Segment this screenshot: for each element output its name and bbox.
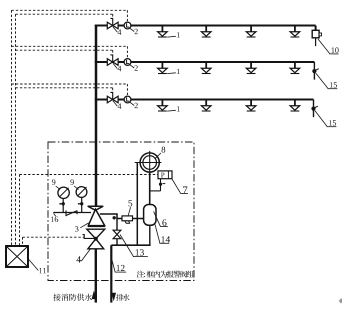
water motor alarm 8 outer (140, 153, 159, 172)
wire branch 3 flow-indicator (12, 83, 128, 85)
text 接消防供水 (53, 294, 92, 301)
signal valve 4 branch 2 stem (110, 55, 112, 62)
sprinkler head branch 2-1 (161, 63, 163, 69)
wire pressure-switch horizontal (20, 174, 159, 176)
label 1 branch 1 leader (167, 35, 176, 38)
control panel 11 box (6, 246, 28, 267)
gauge header pipe (53, 212, 91, 214)
label 7 leader (172, 179, 181, 193)
water motor alarm 8 inner (143, 156, 157, 170)
sprinkler head branch 3-4 (294, 100, 296, 106)
sprinkler head branch 3-3 (250, 100, 252, 106)
wire branch 3 flow-indicator drop (126, 84, 128, 96)
label 3 (75, 226, 78, 231)
scan speck (bottom right) (339, 298, 342, 303)
wire branch 2 signal valve (16, 49, 113, 51)
control panel 11 cross (6, 246, 28, 267)
label 2 branch 1 leader (130, 28, 134, 31)
label 4 branch 1 leader (113, 27, 117, 32)
wire branch 1 flow-indicator drop (126, 10, 128, 22)
label 16 leader (54, 213, 56, 216)
label 1 branch 2 (177, 69, 180, 74)
end test valve 15 (2) tick (315, 69, 319, 71)
main signal valve 4 dot (94, 237, 98, 241)
end test device 10 stem (315, 38, 317, 46)
restrictor 5 tail (125, 221, 130, 224)
supply pipe below valves (95, 249, 97, 303)
pressure switch dot (159, 183, 162, 186)
sprinkler head branch 2-3 (250, 63, 252, 69)
label 2 branch 1 (135, 29, 138, 34)
wire branch 2 flow-indicator drop (126, 46, 128, 58)
label 15 (3) leader (315, 111, 327, 127)
note text 注:框内为报警阀组 (137, 271, 194, 278)
label 4 (main) leader (78, 249, 91, 261)
drain pipe 12 (110, 245, 112, 302)
main signal valve 4 lower (88, 239, 104, 249)
test valve 13 (113, 230, 121, 234)
alarm valve group boundary box (48, 142, 194, 281)
label 1 branch 1 (177, 32, 180, 37)
label 9 leader (56, 186, 60, 190)
wire branch 1 signal valve (16, 13, 113, 15)
flow indicator 2 branch 2 paddle (127, 60, 130, 64)
label 9 (52, 180, 55, 185)
label 10 (332, 47, 339, 52)
wire pressure-switch vertical (19, 175, 21, 247)
wire branch 1 signal valve drop (112, 14, 114, 18)
check valve 16 (65, 210, 67, 216)
drain header (111, 244, 150, 246)
pressure switch 7 divider (167, 171, 169, 179)
label 11 leader (28, 258, 39, 271)
label 1 branch 2 leader (167, 72, 176, 75)
main signal valve 4 upper (87, 229, 105, 239)
branch 1 pipe (95, 25, 316, 27)
delay chamber riser (149, 172, 151, 205)
end test valve 15 (3) drop (313, 100, 315, 118)
end test valve 15 (3) dot (311, 107, 315, 111)
signal valve 4 branch 3 stem (110, 92, 112, 99)
wire main signal valve horizontal (23, 236, 85, 238)
label 13 leader (120, 235, 133, 257)
sprinkler head branch 1-3 (250, 26, 252, 32)
label 6 (162, 219, 166, 225)
gauge cock right (80, 202, 83, 205)
sprinkler head branch 1-2 (205, 26, 207, 32)
wire trunk to control panel (inner) (15, 14, 17, 246)
label 5 (129, 200, 133, 206)
label 14 leader (155, 225, 160, 244)
sprinkler head branch 1-4 (294, 26, 296, 32)
end test device 10 tab (319, 33, 321, 36)
sprinkler head branch 3-1 (161, 100, 163, 106)
test drain drop pipe (116, 219, 118, 246)
end test valve 15 (3) tick (314, 106, 318, 108)
sprinkler head branch 2-4 (294, 63, 296, 69)
sprinkler head branch 3-2 (205, 100, 207, 106)
label 5 leader (128, 207, 131, 216)
label 9 (70, 180, 73, 185)
wire trunk to control panel (outer) (11, 10, 13, 246)
text 排水 (116, 294, 130, 301)
bell crosshair horizontal (135, 162, 162, 164)
wire branch 2 signal valve drop (112, 50, 114, 55)
wire main signal valve drop (22, 237, 24, 246)
label 15 (2) (330, 82, 337, 87)
pressure switch 7 box (158, 171, 172, 179)
gauge stem right (81, 197, 83, 212)
end test device 10 body (312, 30, 319, 38)
label 4 branch 1 (118, 29, 122, 34)
restrictor 5 body (122, 216, 133, 221)
branch 2 pipe (95, 61, 315, 63)
main riser pipe (upper) (95, 25, 98, 207)
wire branch 3 signal valve (16, 87, 113, 89)
delay chamber 6 (144, 205, 156, 226)
end test valve 15 (2) drop (313, 62, 315, 80)
label 12 leader (112, 259, 115, 272)
label 4 (main) (76, 256, 80, 262)
delay chamber drain stem (149, 225, 151, 245)
bell crosshair vertical (149, 151, 151, 174)
pressure switch 7 letter P (161, 173, 164, 178)
pressure gauge 9 needle (60, 188, 69, 197)
flow indicator 2 branch 2 (124, 59, 131, 66)
label 2 branch 2 leader (130, 65, 134, 68)
pressure gauge 9 needle (78, 187, 87, 196)
label 10 leader (318, 39, 330, 54)
alarm outlet junction dot (113, 216, 116, 219)
label 8 leader (155, 153, 161, 158)
signal valve 4 branch 1 stem (110, 18, 112, 25)
pressure gauge 9 (58, 187, 69, 198)
alarm valve 3 body (88, 209, 104, 225)
main signal valve 4 bracket (83, 235, 96, 239)
signal valve 4 branch 1 (107, 22, 112, 29)
label 4 branch 2 leader (113, 63, 117, 68)
label 1 branch 3 (177, 106, 180, 111)
sprinkler head branch 2-2 (205, 63, 207, 69)
label 15 (3) (329, 120, 336, 125)
label 12 (117, 265, 125, 271)
pressure switch drop (160, 179, 162, 191)
label 1 branch 3 leader (167, 109, 176, 112)
signal valve 4 branch 3 (107, 96, 112, 103)
label 11 (39, 268, 46, 273)
wire branch 1 flow-indicator (12, 9, 128, 11)
flow indicator 2 branch 3 (124, 96, 131, 103)
label 7 (183, 186, 187, 193)
label 9 leader (74, 186, 78, 190)
wire branch 3 signal valve drop (112, 88, 114, 93)
label 4 branch 3 leader (113, 101, 117, 106)
drain flow arrow (112, 293, 116, 300)
gauge cock left (62, 202, 65, 205)
label 14 (161, 236, 170, 242)
label 2 branch 3 leader (130, 102, 134, 105)
flow indicator 2 branch 1 paddle (127, 23, 130, 27)
gauge stem left (62, 199, 64, 213)
alarm outlet pipe (100, 214, 144, 219)
label 4 branch 2 (118, 66, 122, 71)
end test device 10 drop (315, 26, 317, 31)
alarm valve 3 upper cone (88, 206, 104, 210)
signal valve 4 branch 2 (107, 59, 112, 66)
label 2 branch 3 (135, 103, 138, 108)
pressure switch tap pipe (150, 190, 161, 192)
bell drain pipe (136, 163, 138, 246)
label 3 leader (80, 223, 88, 228)
label 15 (2) leader (316, 73, 328, 89)
flow indicator 2 branch 1 (124, 22, 131, 29)
label 8 (162, 147, 166, 153)
label 6 leader (154, 211, 161, 226)
flow indicator 2 branch 3 paddle (127, 97, 130, 101)
branch 3 pipe (95, 99, 314, 101)
label 2 branch 2 (135, 65, 138, 70)
wire branch 2 flow-indicator (12, 45, 128, 47)
end test valve 15 (2) dot (312, 69, 316, 73)
supply flow arrow (92, 292, 96, 299)
pressure gauge 9 (76, 187, 87, 198)
label 4 branch 3 (118, 103, 122, 108)
label 13 (136, 249, 144, 255)
alarm valve 3 flange (88, 225, 105, 227)
label 16 (51, 217, 58, 222)
sprinkler head branch 1-1 (161, 26, 163, 32)
